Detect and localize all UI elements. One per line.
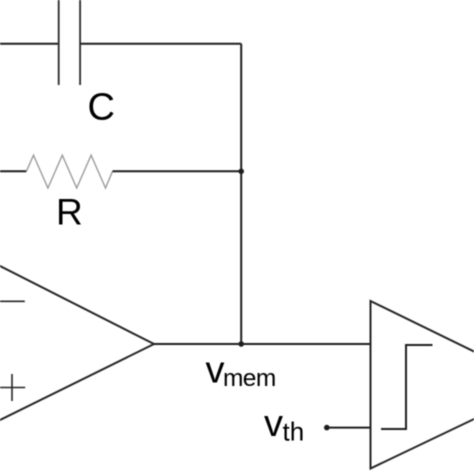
wire: top feedback horizontal, capacitor to right corner xyxy=(81,43,241,45)
node: resistor/feedback junction dot xyxy=(238,169,244,175)
wire: vth input to comparator xyxy=(327,427,371,429)
svg-text:C: C xyxy=(88,87,115,129)
label vth xyxy=(264,403,304,447)
node: vth input terminal dot xyxy=(324,425,330,431)
wire: top feedback horizontal, left segment to capacitor xyxy=(0,43,58,45)
wire: right vertical feedback wire xyxy=(240,44,242,344)
svg-text:R: R xyxy=(56,191,83,232)
svg-text:v: v xyxy=(264,403,283,445)
wire: op-amp output to comparator input xyxy=(154,343,371,345)
node: vmem junction dot xyxy=(238,341,244,347)
svg-text:mem: mem xyxy=(223,365,276,392)
label vmem xyxy=(206,350,276,393)
op-amp inverting input minus sign xyxy=(0,300,25,302)
op-amp U1 (triangle, left edge off-canvas) xyxy=(0,256,154,430)
comparator U2 (triangle, apex off-canvas right) xyxy=(371,301,474,469)
svg-text:th: th xyxy=(283,417,305,447)
op-amp non-inverting input plus sign xyxy=(0,374,25,401)
svg-text:v: v xyxy=(206,350,225,392)
capacitor C (plates) xyxy=(59,0,80,85)
wire: resistor left lead xyxy=(0,170,26,172)
wire: resistor right lead to feedback node xyxy=(113,170,242,172)
resistor R (zigzag body) xyxy=(26,155,112,188)
comparator threshold step symbol xyxy=(381,345,433,429)
